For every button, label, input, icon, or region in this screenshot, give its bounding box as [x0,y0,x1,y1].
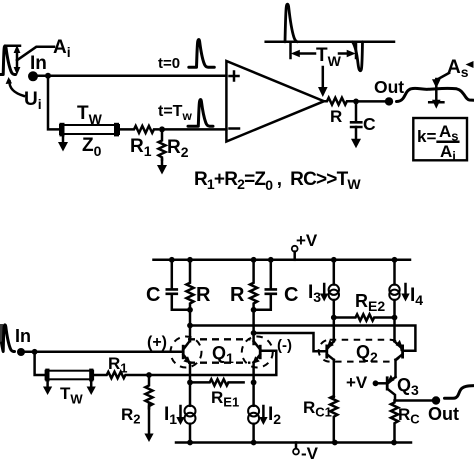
delay line Z0 (box with end caps) [60,123,120,137]
arrow from annotation down to op-amp output [318,67,328,97]
svg-text:(-): (-) [277,337,292,354]
svg-text:(+): (+) [147,334,167,351]
wire non-inverting input [48,75,226,78]
svg-text:C: C [146,284,160,306]
node output RC junction [353,99,359,105]
positive spike of annotation waveform [285,4,297,42]
node Out (top output dot) [385,97,393,105]
resistor R2 (bottom) [145,375,152,408]
wire Q1 left emitter down [189,363,192,406]
op-amp + pin [230,72,239,81]
node RE1 left junction [187,380,193,386]
label I1 with arrow [164,404,185,427]
svg-text:In: In [15,326,31,346]
resistor R (output) [324,98,355,105]
output step waveform (bottom) [445,386,474,399]
svg-text:C: C [363,114,376,134]
terminal -V [293,443,319,464]
box k=As/Ai [413,118,467,164]
node I3-RE2 junction [331,315,337,321]
transistor Q2 right (PNP mirrored) [395,340,403,360]
resistor RE2 [334,314,396,320]
resistor R (pair 1) [186,257,193,310]
wire I3 node to Q2 left emitter [333,318,336,342]
ground below R2 (top) [157,160,167,175]
t=0 pulse waveform [189,40,215,68]
current source I1 [185,406,196,443]
resistor RC1 [330,396,337,443]
ground below delay line left (bottom) [43,382,52,396]
svg-text:R: R [196,284,211,306]
svg-text:Out: Out [374,77,404,97]
label Ai with pointer [17,37,71,60]
dashed box Q2 [319,340,402,362]
svg-text:In: In [30,53,47,74]
wire junction down to delay line (bottom) [35,352,46,375]
svg-text:Out: Out [428,404,459,424]
peak reference tick [6,44,20,47]
capacitor C (pair 2) [254,257,278,310]
transistor Q3 (PNP) [387,375,396,401]
node R1-R2 junction [159,126,165,132]
node Q3 collector junction [395,399,436,402]
annotation waveform baseline (top right) [266,41,394,44]
wire In to Q1 base [21,351,182,354]
wire Q1 right collector to Q2 left base [254,333,326,351]
capacitor C (output) [350,101,363,140]
label I3 with arrow [308,282,328,305]
transistor Q1 left (NPN) [183,341,191,364]
+V supply rail (top rail) [154,259,411,262]
op-amp U1 [226,61,324,142]
node I4-RE2 junction [392,315,398,321]
node In (top input dot) [28,71,38,81]
resistor R1 (top) [119,126,158,133]
dashed circle around Q1 right [242,337,273,368]
resistor R1 (bottom) [93,372,149,378]
current source I3 [329,257,339,318]
wire Q2 right collector to Q3 emitter [394,360,397,377]
ground below delay line right (bottom) [87,382,96,396]
node Q1 right collector cross junction [251,330,257,336]
ground below R2 (bottom) [144,403,153,442]
node In (bottom input dot) [17,348,25,356]
t=TW pulse waveform [188,100,213,127]
negative spike of annotation waveform [353,42,363,71]
node RE1 right junction [251,380,257,386]
input pulse waveform (bottom) [2,324,15,352]
wire Q1 right emitter down [252,363,255,406]
+V at Q3 base [346,373,386,392]
svg-text:R: R [230,284,245,306]
node pair2 bottom join [251,307,257,313]
wire Q1 left collector to Q2 right base (cross coupling) [190,326,415,351]
wire junction down to delay line [48,76,60,130]
node junction at top input [45,73,51,79]
TW measurement arrow with end bars [291,43,357,59]
node rail RC1 [332,440,338,446]
svg-text:R: R [330,107,342,126]
dashed circle around Q1 left [171,337,202,368]
ground below C (output) [351,139,361,149]
current source I4 [389,257,399,318]
delay line TW (bottom, box with end caps) [45,369,93,382]
svg-text:R1+R2=Z0 , RC>>TW: R1+R2=Z0 , RC>>TW [194,169,361,193]
node rail RC [391,440,397,446]
ground below delay line [58,137,68,152]
-V supply rail (bottom rail) [176,441,411,444]
resistor R (pair 2) [250,257,257,310]
transistor Q1 right (NPN mirrored) [252,341,260,364]
svg-text:k=: k= [417,127,436,146]
dashed box Q1 [188,339,250,362]
resistor R2 (top) [159,129,166,159]
node Out (bottom output dot) [432,396,440,404]
node Q1 left collector cross junction [187,323,193,329]
label I4 with arrow [401,284,423,308]
node rail I2 [251,440,257,446]
wire pair2 to Q1 right collector [252,310,255,344]
amplitude arrow Ai (double-headed) [14,45,21,75]
label As with pointer arrowhead [447,57,474,80]
svg-text:+V: +V [296,231,318,250]
terminal +V [292,231,318,260]
label I2 with arrow [259,404,281,427]
capacitor C (pair 1) [166,257,191,310]
wire to Out [356,100,389,103]
transistor Q2 left (PNP) [327,340,334,360]
wire I4 node to Q2 right emitter [393,318,396,342]
wire Q2 left collector to RC1 [333,360,336,397]
wire inverting input [162,128,226,131]
label Ui with curved arrow [6,77,42,112]
op-amp - pin [230,127,240,130]
input pulse waveform Ui [0,46,20,75]
current source I2 [248,406,259,443]
resistor RC [391,401,398,444]
wire pair1 to Q1 left collector [189,310,192,341]
wire In to junction [33,75,48,78]
svg-text:t=0: t=0 [158,55,180,72]
resistor RE1 [190,379,244,385]
output step waveform [397,88,474,101]
svg-text:+V: +V [346,373,368,392]
svg-text:C: C [284,284,298,306]
node R1-R2 junction (bottom) [146,372,152,378]
wire R1R2 node to (-) route [149,351,276,375]
node pair1 bottom join [187,307,193,313]
svg-text:-V: -V [301,444,319,463]
node rail I1 [187,440,193,446]
node junction at bottom input [32,349,38,355]
As measurement arrow onto step [429,73,449,109]
